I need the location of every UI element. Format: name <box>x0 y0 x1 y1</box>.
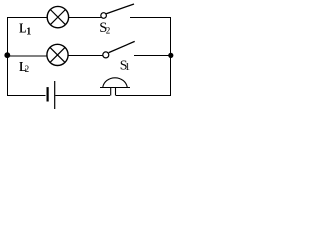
svg-text:1: 1 <box>125 62 130 73</box>
svg-text:2: 2 <box>25 64 30 74</box>
svg-text:1: 1 <box>26 26 31 37</box>
svg-text:L: L <box>19 20 26 36</box>
svg-text:2: 2 <box>106 26 111 36</box>
